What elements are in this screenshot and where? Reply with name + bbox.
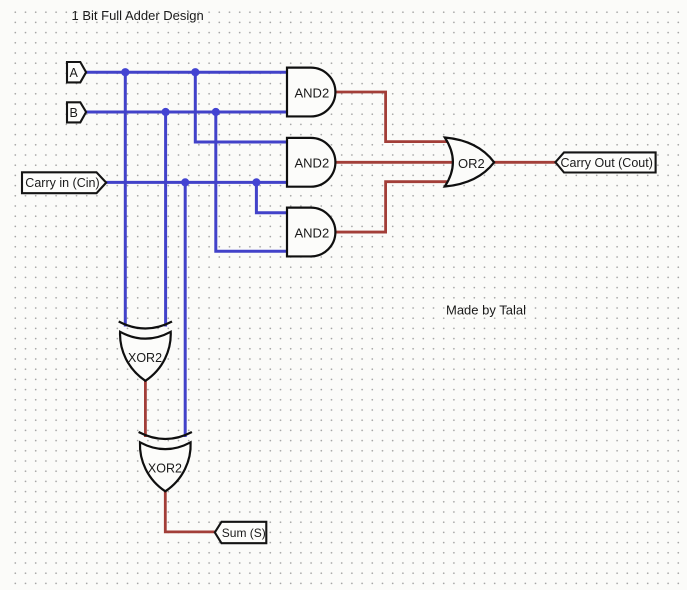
wire: net A branch to AND2 U2 input 1 (195, 72, 288, 142)
gate: AND2 U1 (287, 68, 335, 117)
wire: net A horizontal from tag A to AND2 U1 input 1 (86, 71, 288, 74)
junction: net Cin at x=256 (252, 178, 260, 186)
junction: net A at x=195 (191, 68, 199, 76)
junction: net B at x=165 (162, 108, 170, 116)
gate: AND2 U3 (287, 208, 335, 257)
junction: net A at x=125 (121, 68, 129, 76)
svg-text:XOR2: XOR2 (148, 462, 182, 476)
wire: net B horizontal from tag B to AND2 U1 input 2 (86, 111, 288, 114)
wire: net Cin vertical drop to XOR2 U5 input 2 (184, 182, 187, 437)
wire: AND2 U1 output to OR2 U6 input 1 (335, 92, 450, 142)
wire: XOR2 U4 output to XOR2 U5 input 1 (144, 380, 147, 437)
svg-text:B: B (70, 106, 78, 120)
wire: AND2 U3 output to OR2 U6 input 3 (335, 182, 450, 232)
svg-text:AND2: AND2 (295, 156, 330, 171)
gate: XOR2 U4 (sum stage 1, points down) (119, 322, 172, 381)
input tag B (67, 102, 86, 122)
svg-text:1 Bit Full Adder Design: 1 Bit Full Adder Design (72, 8, 204, 23)
wire: AND2 U2 output to OR2 U6 input 2 (335, 161, 452, 164)
svg-text:A: A (70, 66, 79, 80)
gate: AND2 U2 (287, 138, 335, 187)
gate: OR2 U6 (445, 138, 494, 187)
svg-text:AND2: AND2 (295, 85, 330, 100)
input tag Carry in (Cin) (22, 172, 106, 193)
svg-text:Carry Out (Cout): Carry Out (Cout) (561, 156, 653, 170)
svg-text:XOR2: XOR2 (128, 351, 162, 365)
svg-text:AND2: AND2 (295, 225, 330, 240)
wire: net B vertical drop to XOR2 U4 input 2 (164, 112, 167, 327)
svg-text:OR2: OR2 (458, 156, 485, 171)
input tag A (67, 62, 86, 82)
output tag Carry Out (Cout) (555, 152, 655, 172)
wire: net Cin branch to AND2 U3 input 1 (256, 182, 288, 212)
wire: OR2 U6 output to tag Carry Out (494, 161, 556, 164)
wire: XOR2 U5 output to tag Sum (165, 490, 215, 532)
svg-text:Made by Talal: Made by Talal (446, 302, 526, 317)
output tag Sum (S) (215, 522, 266, 543)
junction: net Cin at x=185 (181, 178, 189, 186)
gate: XOR2 U5 (sum stage 2, points down) (139, 432, 192, 491)
svg-text:Sum (S): Sum (S) (222, 526, 266, 540)
wire: net A vertical drop to XOR2 U4 input 1 (124, 72, 127, 326)
wire: net B branch to AND2 U3 input 2 (216, 112, 288, 251)
svg-text:Carry in (Cin): Carry in (Cin) (25, 176, 99, 190)
junction: net B at x=215 (212, 108, 220, 116)
wire: net Cin horizontal from tag Carry in to AND2 U2 input 2 (106, 181, 288, 184)
